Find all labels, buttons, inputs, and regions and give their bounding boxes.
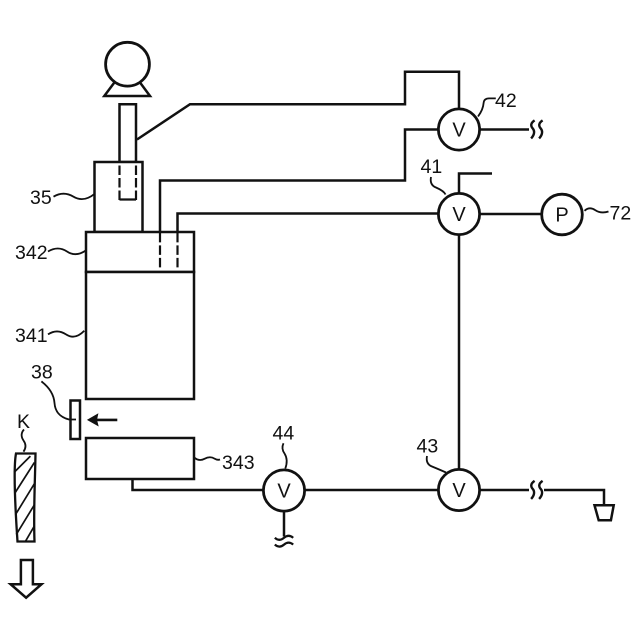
svg-text:43: 43 [417, 436, 439, 458]
svg-text:38: 38 [31, 361, 53, 383]
svg-text:V: V [452, 480, 466, 502]
svg-text:341: 341 [15, 325, 48, 347]
svg-text:K: K [17, 411, 30, 433]
svg-text:V: V [452, 120, 466, 142]
svg-text:P: P [555, 205, 568, 227]
svg-text:44: 44 [273, 423, 295, 445]
svg-text:V: V [277, 481, 291, 503]
svg-text:72: 72 [610, 203, 632, 225]
svg-text:35: 35 [30, 187, 52, 209]
svg-text:V: V [452, 204, 466, 226]
svg-text:342: 342 [15, 242, 48, 264]
svg-text:42: 42 [495, 90, 517, 112]
svg-text:41: 41 [421, 156, 443, 178]
svg-text:343: 343 [222, 452, 255, 474]
